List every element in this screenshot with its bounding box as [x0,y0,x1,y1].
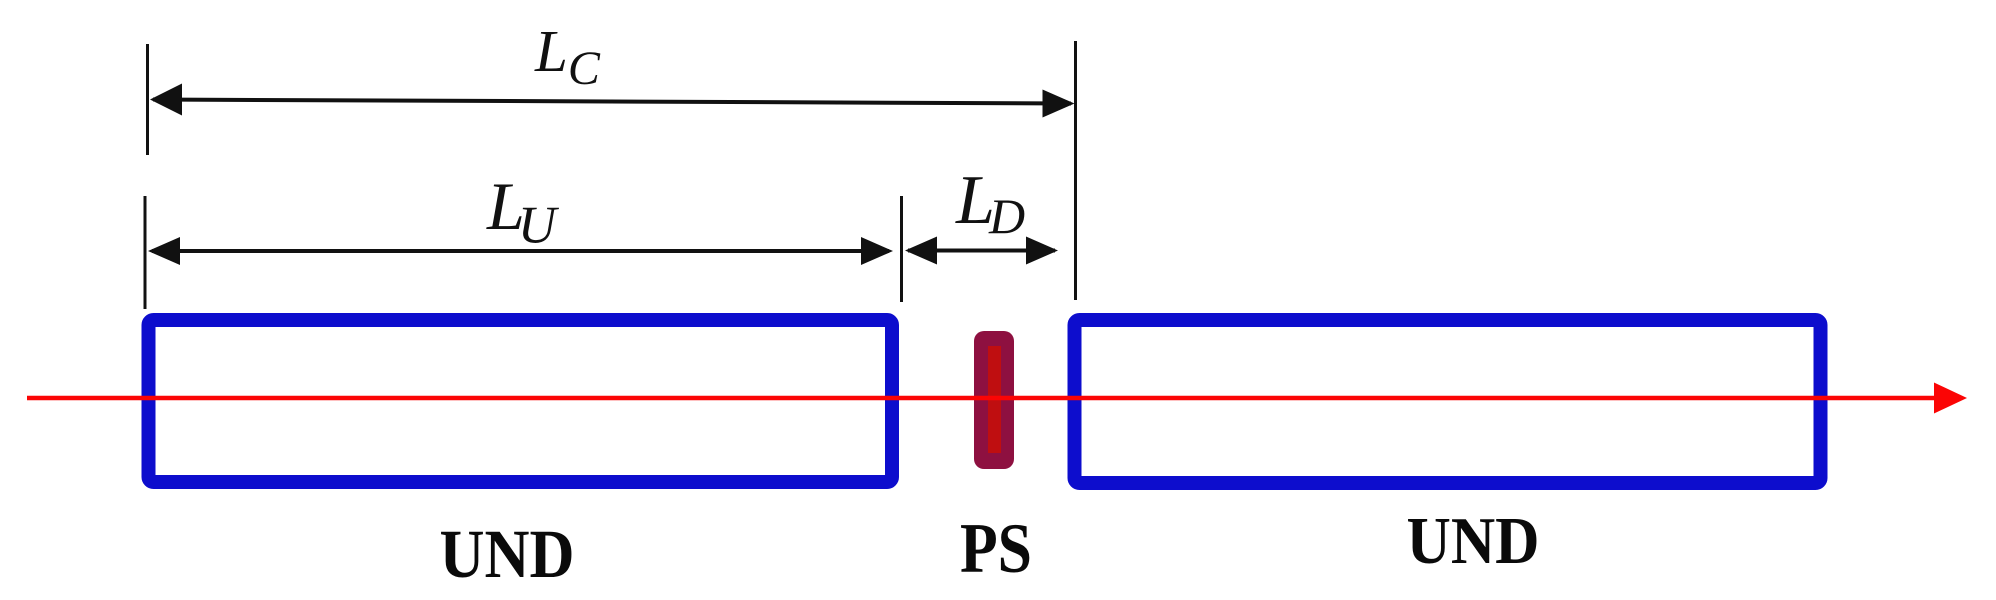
dimension arrow Lc right head [1043,90,1075,118]
tick between Lu and Ld [900,196,903,302]
svg-text:UND: UND [1407,504,1540,578]
phase shifter PS inner bar [988,346,1001,453]
beam axis arrowhead [1934,383,1967,414]
dimension arrow Ld left head [905,237,937,265]
undulator 2 outline (UND right) [1075,320,1821,483]
dimension arrow Lu right head [861,237,893,265]
tick Lc left [146,44,149,155]
dimension arrow Ld right head [1026,237,1058,265]
svg-text:LD: LD [955,162,1025,244]
dimension arrow Lu left head [148,237,180,265]
svg-text:LC: LC [534,18,601,95]
dimension arrow Ld line [908,249,1055,253]
beam axis (red arrow line) [27,396,1938,401]
phase shifter PS body [974,331,1014,469]
undulator 1 outline (UND left) [149,320,893,482]
dimension arrow Lc line [153,100,1071,104]
svg-text:PS: PS [960,510,1032,588]
svg-text:UND: UND [440,516,575,592]
dimension arrow Lc left head [150,84,182,116]
dimension arrow Lu line [152,249,889,253]
svg-text:LU: LU [486,168,560,255]
tick Lc right (long) [1074,41,1077,300]
tick Lu left [144,196,147,309]
